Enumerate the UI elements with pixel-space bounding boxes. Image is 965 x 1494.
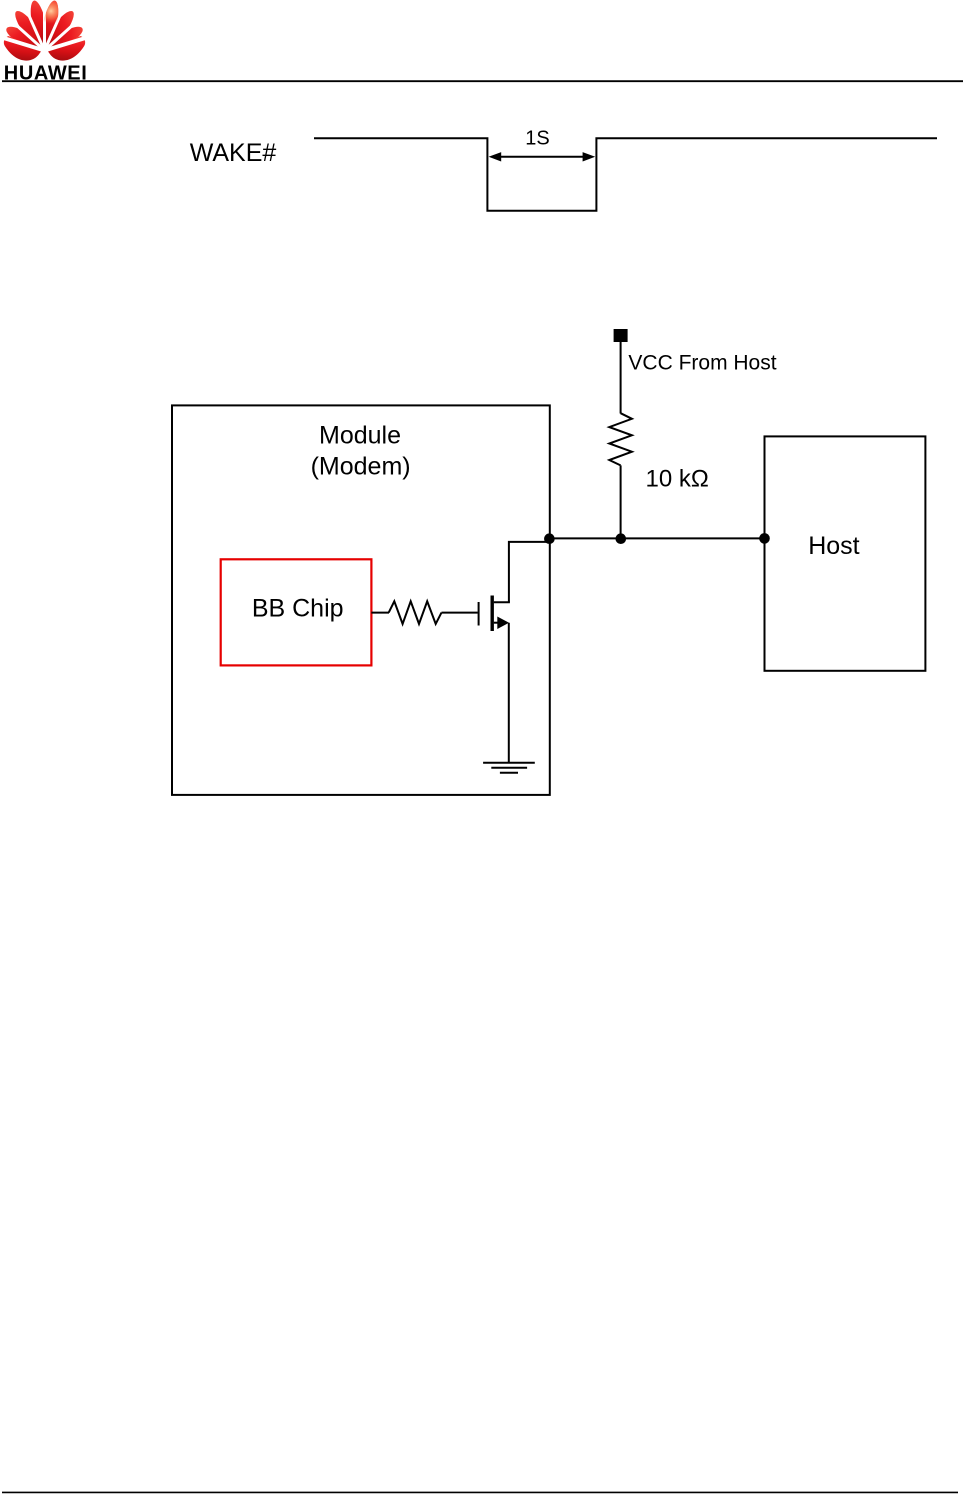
svg-text:Host: Host	[808, 532, 859, 560]
svg-text:(Modem): (Modem)	[311, 453, 411, 481]
wire pull-up resistor to node	[620, 465, 622, 538]
wire BB chip to gate resistor	[371, 612, 389, 614]
pull-up resistor R2	[609, 413, 632, 465]
node junction dot at pull-up	[616, 533, 627, 544]
WAKE# waveform trace	[314, 138, 937, 211]
svg-text:Module: Module	[319, 422, 401, 450]
node junction dot at host	[759, 533, 770, 544]
Host box	[765, 436, 926, 670]
module box	[172, 405, 550, 795]
gate resistor R1	[389, 601, 442, 624]
1S dimension arrow	[489, 152, 596, 161]
drain wire to node	[509, 542, 550, 602]
MOSFET Q1	[479, 596, 510, 632]
svg-text:VCC From Host: VCC From Host	[628, 351, 776, 374]
ground	[483, 763, 535, 773]
wire VCC to pull-up resistor	[620, 341, 622, 414]
net wire WAKE node	[549, 537, 764, 539]
header rule	[2, 80, 963, 82]
svg-text:10 kΩ: 10 kΩ	[646, 466, 709, 493]
source wire to ground	[508, 623, 510, 763]
BB chip box	[221, 559, 372, 665]
Huawei logo	[0, 0, 100, 63]
VCC terminal	[614, 329, 628, 342]
footer rule	[2, 1491, 958, 1493]
svg-text:BB Chip: BB Chip	[252, 595, 344, 623]
node junction dot at module edge	[544, 533, 555, 544]
wire gate resistor to MOSFET gate	[442, 612, 478, 614]
svg-text:WAKE#: WAKE#	[190, 139, 277, 167]
svg-text:1S: 1S	[525, 128, 549, 150]
